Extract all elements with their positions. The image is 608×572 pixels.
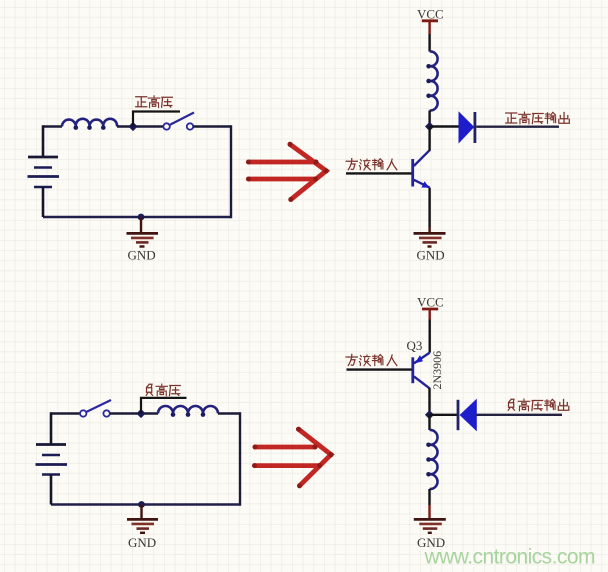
label 2N3906 (rotated) <box>430 351 444 390</box>
ground symbol <box>127 519 158 532</box>
label GND <box>128 248 156 263</box>
power VCC bar <box>422 309 438 320</box>
wire node to diode <box>430 414 458 416</box>
node junction 负高压 <box>136 409 145 418</box>
svg-text:GND: GND <box>128 248 156 263</box>
svg-text:www.cntronics.com: www.cntronics.com <box>424 546 596 569</box>
switch S1 <box>163 113 194 130</box>
inductor L3 <box>158 406 218 417</box>
diode D1 <box>459 112 475 143</box>
battery B2 <box>36 445 68 475</box>
wire label bracket <box>133 112 180 127</box>
wire bottom <box>43 216 231 219</box>
wire switch to node <box>110 412 158 414</box>
wire bottom <box>51 503 240 506</box>
label Q3 <box>407 338 423 353</box>
power VCC label <box>417 7 444 22</box>
wire node to inductor <box>428 415 430 430</box>
wire base input <box>347 368 412 370</box>
inductor L2 <box>426 51 437 110</box>
wire left below battery <box>50 475 53 505</box>
wire emitter to ground <box>428 188 430 233</box>
wire right side <box>230 125 232 218</box>
transistor Q3 PNP emitter with arrow <box>414 353 430 364</box>
net label 正高压输出 <box>506 112 570 124</box>
label 方波输入 <box>346 354 397 365</box>
wire left above battery <box>42 125 45 157</box>
node collector junction <box>425 410 434 419</box>
svg-text:VCC: VCC <box>417 7 444 22</box>
wire top-left lead to inductor <box>43 125 62 127</box>
power VCC bar <box>422 21 438 34</box>
arrow (implication) top <box>249 144 327 199</box>
wire VCC to inductor <box>428 34 430 52</box>
node junction 正高压 <box>128 122 137 131</box>
svg-text:Q3: Q3 <box>407 338 423 353</box>
label 正高压 <box>136 96 173 108</box>
wire VCC to emitter <box>429 320 431 353</box>
label 负高压 <box>146 384 180 396</box>
node GND junction <box>138 214 145 221</box>
wire switch to corner <box>193 125 231 127</box>
svg-text:VCC: VCC <box>417 294 444 309</box>
label 方波输入 <box>346 159 397 170</box>
wire label bracket <box>141 398 187 414</box>
transistor Q1 collector <box>414 127 430 167</box>
ground symbol <box>414 233 446 246</box>
wire left below battery <box>42 187 45 217</box>
wire inductor to corner <box>218 412 240 414</box>
wire top-left lead to switch <box>51 412 80 414</box>
power VCC label <box>417 294 444 309</box>
inductor L4 <box>426 430 437 489</box>
switch S2 <box>80 400 111 417</box>
wire right side <box>239 412 241 505</box>
node GND junction <box>138 501 145 508</box>
ground stub <box>140 217 142 233</box>
label GND <box>128 535 156 550</box>
ground symbol <box>127 233 159 246</box>
transistor Q3 collector <box>414 376 430 388</box>
svg-text:2N3906: 2N3906 <box>430 351 444 390</box>
wire node to diode <box>430 125 459 127</box>
arrow (implication) bottom <box>255 429 332 486</box>
net label 负高压输出 <box>508 399 569 411</box>
wire collector to node <box>428 388 430 415</box>
wire inductor to ground <box>428 489 430 519</box>
battery B1 <box>28 157 60 187</box>
transistor Q3 base bar <box>411 357 414 383</box>
ground stub <box>140 505 142 520</box>
transistor Q1 NPN base bar <box>411 159 414 187</box>
ground symbol <box>414 519 446 532</box>
watermark www.cntronics.com <box>424 546 596 569</box>
wire inductor to node <box>428 111 430 127</box>
label GND <box>417 248 445 263</box>
svg-text:GND: GND <box>417 248 445 263</box>
wire left above battery <box>50 412 53 444</box>
wire inductor to switch <box>117 125 164 127</box>
svg-text:GND: GND <box>128 535 156 550</box>
diode D2 <box>458 400 476 430</box>
wire diode to net label <box>476 125 559 127</box>
wire diode to net label <box>476 414 562 416</box>
transistor Q1 emitter with arrow <box>414 180 430 188</box>
label GND <box>417 535 445 550</box>
node collector junction <box>425 122 434 131</box>
wire base input <box>346 172 412 174</box>
inductor L1 <box>62 119 117 130</box>
